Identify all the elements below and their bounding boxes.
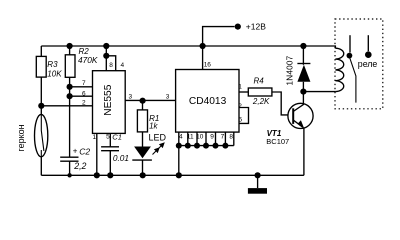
svg-text:7: 7 (221, 133, 225, 140)
svg-text:4: 4 (120, 62, 124, 69)
svg-text:4: 4 (179, 133, 183, 140)
svg-text:2: 2 (82, 99, 86, 106)
svg-text:0.01: 0.01 (113, 153, 129, 163)
svg-text:1: 1 (238, 84, 242, 91)
svg-text:CD4013: CD4013 (189, 96, 227, 107)
svg-text:R3: R3 (47, 60, 58, 69)
svg-text:5: 5 (238, 117, 242, 124)
svg-text:16: 16 (204, 62, 212, 69)
svg-text:LED: LED (149, 133, 167, 143)
svg-text:11: 11 (187, 133, 194, 140)
svg-text:10: 10 (196, 133, 204, 140)
svg-text:2: 2 (238, 103, 242, 110)
svg-text:8: 8 (229, 133, 233, 140)
svg-text:R4: R4 (254, 76, 265, 85)
svg-text:1k: 1k (149, 121, 158, 130)
svg-text:1N4007: 1N4007 (285, 55, 294, 85)
svg-text:2,2: 2,2 (73, 161, 86, 171)
svg-text:1: 1 (92, 134, 96, 141)
svg-text:470K: 470K (78, 55, 98, 65)
svg-text:+12В: +12В (246, 22, 266, 32)
svg-text:3: 3 (129, 93, 133, 100)
svg-text:NE555: NE555 (103, 84, 114, 115)
svg-text:геркон: геркон (16, 124, 26, 151)
svg-text:10K: 10K (47, 69, 62, 78)
svg-text:5: 5 (106, 133, 110, 140)
svg-text:8: 8 (109, 62, 113, 69)
svg-text:C1: C1 (112, 133, 122, 142)
svg-text:2,2K: 2,2K (252, 97, 270, 106)
svg-text:C2: C2 (79, 146, 90, 156)
svg-text:реле: реле (358, 59, 378, 69)
svg-text:+: + (73, 147, 78, 156)
svg-text:3: 3 (166, 94, 170, 101)
svg-text:BC107: BC107 (266, 137, 289, 146)
svg-text:6: 6 (82, 90, 86, 97)
svg-text:9: 9 (210, 133, 214, 140)
svg-text:7: 7 (82, 80, 86, 87)
